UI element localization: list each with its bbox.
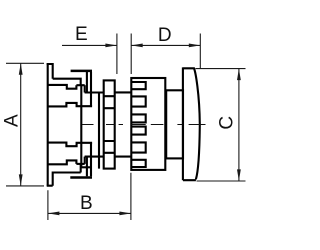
top collar line y=92.5 bbox=[85, 91, 104, 93]
vertical 84.7 bottom bbox=[84, 157, 86, 164]
C top bbox=[237, 69, 241, 81]
svg-text:A: A bbox=[2, 114, 23, 127]
B left bbox=[48, 212, 60, 216]
vertical 91 bottom bbox=[90, 143, 92, 177]
extra lower line to column bbox=[81, 166, 91, 168]
A bottom bbox=[19, 174, 23, 186]
top snap bar (thick) bbox=[71, 70, 92, 73]
vertical 86.9 top bbox=[86, 72, 88, 93]
neck rectangle bbox=[166, 90, 183, 158]
B right bbox=[119, 212, 130, 216]
B dimension line bbox=[48, 212, 131, 214]
A dimension line bbox=[20, 63, 22, 186]
bottom collar line y=156.6 bbox=[85, 156, 104, 158]
flange upper shoulder line bbox=[53, 79, 81, 86]
shaft lines across gap bbox=[115, 92, 132, 156]
bottom level line with notch bbox=[48, 160, 77, 164]
block teeth bbox=[131, 82, 145, 89]
mirror: mid level with plateau (bottom) bbox=[48, 143, 92, 147]
C extension lines bbox=[196, 69, 246, 181]
cap bbox=[183, 67, 200, 180]
column box bbox=[104, 80, 115, 168]
arrowheads bbox=[19, 44, 241, 216]
svg-text:E: E bbox=[75, 24, 88, 45]
D right arrow (points right) bbox=[189, 44, 201, 48]
bottom shoulder bbox=[47, 164, 81, 186]
long inner vertical bbox=[80, 85, 82, 167]
short vertical at 84.7 top bbox=[84, 85, 86, 92]
D dimension line bbox=[131, 44, 200, 46]
E leader + dimension line bbox=[62, 44, 117, 46]
D left arrow (points left) bbox=[131, 44, 143, 48]
A extension lines bbox=[6, 63, 44, 186]
upper hook line bbox=[76, 84, 84, 86]
C dimension line bbox=[238, 69, 240, 181]
ribbed block outline bbox=[131, 78, 165, 170]
flange top tab bbox=[47, 64, 53, 79]
mid level left with plateau bbox=[48, 103, 92, 107]
E/D extension lines bbox=[117, 34, 200, 75]
vertical 86.9 bottom bbox=[86, 157, 88, 177]
washer vertical x=99 bbox=[98, 93, 100, 169]
bottom snap bar (thick) bbox=[70, 176, 92, 179]
svg-text:C: C bbox=[217, 116, 238, 130]
bottom hook line bbox=[76, 163, 84, 165]
flange left edge bbox=[47, 63, 49, 186]
vertical 91 top bbox=[90, 72, 92, 106]
upper level line with notch bbox=[48, 85, 77, 89]
E arrow (points right) bbox=[105, 44, 117, 48]
B extension lines bbox=[48, 173, 131, 220]
column inner lines bbox=[104, 96, 115, 153]
svg-text:B: B bbox=[80, 193, 93, 214]
C bottom bbox=[237, 169, 241, 181]
A top bbox=[19, 63, 23, 75]
svg-text:D: D bbox=[158, 25, 172, 46]
